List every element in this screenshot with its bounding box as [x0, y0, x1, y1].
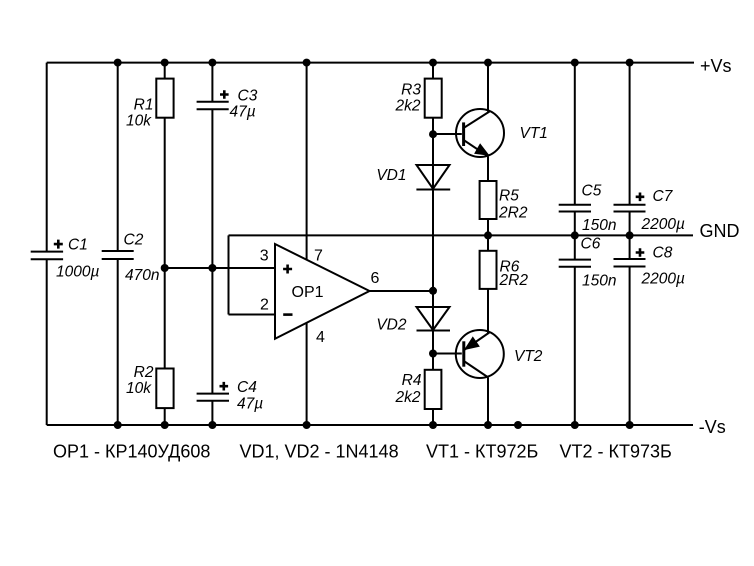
svg-text:150n: 150n	[582, 217, 616, 234]
svg-text:150n: 150n	[582, 273, 616, 290]
wire R4 bottom lead	[432, 409, 434, 425]
svg-text:VT1 - КТ972Б: VT1 - КТ972Б	[426, 442, 538, 462]
svg-text:C7: C7	[653, 188, 674, 205]
wire R1 top lead	[164, 63, 166, 79]
wire pin2 input	[229, 314, 276, 316]
svg-text:2R2: 2R2	[499, 272, 529, 289]
svg-text:R3: R3	[401, 82, 421, 99]
wire VT1 emitter	[487, 157, 489, 182]
svg-text:VD1: VD1	[376, 167, 406, 184]
node top rail junctions	[114, 59, 122, 67]
svg-text:VD2: VD2	[376, 317, 407, 334]
wire +Vs top rail	[47, 62, 694, 64]
svg-text:C4: C4	[237, 379, 257, 396]
node bottom rail junctions	[114, 421, 122, 429]
node VD2-VT2 base	[429, 350, 437, 358]
node input junctions	[161, 264, 169, 272]
svg-text:VT2: VT2	[514, 348, 543, 365]
svg-text:47µ: 47µ	[230, 104, 256, 121]
wire feedback vertical	[228, 235, 230, 314]
wire C5 top lead	[574, 63, 576, 205]
svg-text:C3: C3	[238, 88, 258, 105]
svg-text:7: 7	[314, 247, 323, 264]
svg-text:C2: C2	[124, 232, 144, 249]
wire C7 top lead	[629, 63, 631, 205]
node R3-VD1	[429, 130, 437, 138]
svg-text:470n: 470n	[125, 267, 159, 284]
svg-text:VD1, VD2 - 1N4148: VD1, VD2 - 1N4148	[240, 442, 399, 462]
wire R6 to VT2 emitter	[487, 289, 489, 333]
capacitor C6	[559, 260, 591, 267]
wire pin3 input	[165, 267, 275, 269]
svg-text:GND: GND	[700, 221, 740, 241]
svg-text:10k: 10k	[126, 380, 152, 397]
wire C3 top lead	[211, 63, 213, 102]
wire C2 column upper	[117, 63, 119, 251]
svg-text:10k: 10k	[126, 113, 152, 130]
wire C5 to GND	[574, 212, 576, 260]
transistor Q VT1	[456, 109, 504, 157]
wire op-amp output	[370, 290, 434, 292]
resistor R1	[156, 79, 173, 118]
svg-text:2k2: 2k2	[395, 389, 421, 406]
op-amp U1 triangle	[275, 244, 370, 339]
wire VT2 collector	[487, 378, 489, 426]
capacitor C4	[197, 394, 229, 401]
svg-text:VT2 - КТ973Б: VT2 - КТ973Б	[560, 442, 672, 462]
wire VT2 base	[433, 353, 462, 355]
svg-text:OP1: OP1	[292, 284, 324, 301]
diode VD1	[417, 165, 450, 189]
wire R5 to GND	[487, 219, 489, 235]
svg-text:+Vs: +Vs	[700, 56, 732, 76]
svg-text:R1: R1	[134, 97, 154, 114]
wire VT1 collector	[487, 63, 489, 112]
svg-text:R4: R4	[402, 372, 422, 389]
svg-text:2200µ: 2200µ	[641, 271, 685, 288]
resistor R4	[425, 370, 442, 409]
svg-text:R5: R5	[499, 188, 519, 205]
svg-text:6: 6	[371, 270, 380, 287]
diode VD2	[417, 307, 450, 330]
wire C1 column lower	[46, 259, 48, 425]
svg-text:R2: R2	[134, 364, 154, 381]
svg-text:OP1 - КР140УД608: OP1 - КР140УД608	[53, 442, 210, 462]
wire GND rail	[229, 234, 694, 236]
wire VT1 base	[433, 133, 462, 135]
svg-text:4: 4	[316, 329, 325, 346]
wire R2 bottom lead	[164, 408, 166, 425]
wire C2 column lower	[117, 259, 119, 425]
svg-text:3: 3	[260, 247, 269, 264]
wire R3 top lead	[432, 63, 434, 79]
svg-text:47µ: 47µ	[237, 396, 263, 413]
capacitor C3	[197, 102, 229, 109]
wire GND to R6	[487, 235, 489, 250]
capacitor C2	[102, 251, 134, 259]
svg-text:2200µ: 2200µ	[641, 216, 685, 233]
capacitor C7	[614, 205, 646, 212]
wire C4 bottom lead	[211, 401, 213, 425]
wire C7 to GND	[629, 212, 631, 260]
capacitor C8	[614, 259, 646, 267]
svg-text:C1: C1	[68, 236, 88, 253]
capacitor C5	[559, 205, 591, 212]
svg-text:C8: C8	[653, 245, 673, 262]
node GND junctions	[484, 231, 492, 239]
svg-text:2R2: 2R2	[498, 205, 528, 222]
wire R1-R2 column	[164, 118, 166, 369]
svg-text:VT1: VT1	[520, 125, 548, 142]
wire op-amp supply column	[306, 63, 308, 425]
wire VD1 to VD2	[432, 165, 434, 330]
resistor R5	[480, 181, 497, 219]
svg-text:-Vs: -Vs	[699, 417, 726, 437]
wire R3 to VD1	[432, 118, 434, 190]
node output	[429, 287, 437, 295]
wire -Vs bottom rail	[47, 424, 693, 426]
svg-text:C5: C5	[582, 182, 602, 199]
svg-text:1000µ: 1000µ	[56, 264, 99, 281]
svg-text:C6: C6	[581, 236, 601, 253]
resistor R2	[156, 369, 173, 409]
transistor Q VT2	[456, 330, 504, 378]
svg-text:2: 2	[260, 296, 269, 313]
wire C3-C4 column	[211, 109, 213, 393]
wire C6 bottom lead	[574, 267, 576, 425]
capacitor C1	[31, 252, 63, 260]
resistor R3	[425, 79, 442, 118]
wire C1 column upper	[46, 63, 48, 252]
resistor R6	[480, 251, 497, 289]
svg-text:2k2: 2k2	[395, 98, 421, 115]
wire VD2 to R4	[432, 307, 434, 370]
wire C8 bottom lead	[629, 267, 631, 426]
